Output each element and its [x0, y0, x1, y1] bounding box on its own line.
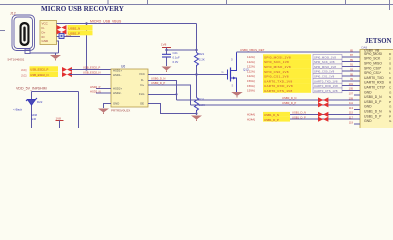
svg-text:UART0_RXD_1V8: UART0_RXD_1V8 [314, 84, 338, 88]
svg-text:SPI0_SCK_1V8: SPI0_SCK_1V8 [314, 60, 335, 64]
svg-text:D: D [231, 58, 233, 62]
svg-text:UART0_TXD_1V8: UART0_TXD_1V8 [314, 79, 338, 83]
svg-text:USB0_D_P: USB0_D_P [282, 101, 296, 105]
no-connect X on USB0_D_N [318, 97, 328, 102]
pin row USB1_D_N [247, 110, 382, 118]
net label USB_ESD2_P [30, 66, 59, 71]
wire USB0_D_N long [177, 99, 361, 101]
ground Q13 [231, 92, 243, 98]
wire U6 D+ out [148, 85, 191, 105]
pin row USB0_D_N [349, 95, 382, 100]
net label USB_ESD2_N [30, 72, 59, 77]
svg-text:122A]: 122A] [247, 74, 255, 78]
wire U6 GND to ground [104, 103, 112, 108]
svg-text:2: 2 [389, 57, 391, 61]
svg-text:SPI0_CS0*: SPI0_CS0* [364, 66, 382, 70]
svg-text:USB0_D_P: USB0_D_P [151, 81, 165, 85]
svg-text:115: 115 [349, 111, 354, 115]
wire HSD2_P stub [96, 88, 111, 90]
svg-text:<-Back: <-Back [13, 108, 23, 112]
svg-text:USB_ESD2_P: USB_ESD2_P [83, 66, 101, 70]
svg-text:1V8: 1V8 [56, 116, 62, 120]
svg-text:HSD2-: HSD2- [113, 91, 121, 95]
svg-text:HSD1+: HSD1+ [113, 68, 122, 72]
svg-text:GND: GND [364, 105, 372, 109]
svg-text:GND: GND [113, 101, 119, 105]
svg-text:122A]: 122A] [247, 60, 255, 64]
wire HSD2_N stub [96, 92, 111, 94]
pin row UART0_TXD [247, 76, 384, 84]
svg-text:H24A]: H24A] [247, 113, 255, 117]
wire ESD2_P to U6 [70, 69, 111, 71]
svg-text:X: X [389, 76, 391, 80]
no-connect X on ESD2_N [62, 72, 72, 77]
svg-text:UART0_CTS_1V8: UART0_CTS_1V8 [314, 89, 338, 93]
svg-text:USB1_D_N: USB1_D_N [264, 113, 279, 117]
svg-text:H24A]: H24A] [247, 117, 255, 121]
svg-text:USB_ESD2_P: USB_ESD2_P [30, 68, 48, 72]
pin row GND 113 [349, 105, 372, 110]
module connector box [360, 50, 393, 129]
wire VBUS vertical [196, 24, 198, 53]
svg-text:D-: D- [141, 78, 144, 82]
net label USB2_P [68, 30, 93, 35]
sheet top border line [0, 0, 393, 31]
svg-text:117: 117 [349, 116, 354, 120]
wire GND of J2 [30, 41, 59, 55]
svg-text:N: N [389, 95, 391, 99]
svg-text:N: N [389, 110, 391, 114]
svg-text:USB0_VBUS_DET: USB0_VBUS_DET [240, 48, 265, 52]
pin row SPI0_CS1* [247, 71, 382, 79]
svg-text:GND: GND [364, 90, 372, 94]
pin row USB0_D_P [349, 100, 382, 105]
svg-text:SPI0_CS1*: SPI0_CS1* [364, 71, 382, 75]
wire U6 D- out [148, 80, 177, 100]
wire D- stub [57, 27, 58, 29]
svg-text:HSD2_P: HSD2_P [90, 85, 101, 89]
svg-text:TP7: TP7 [66, 34, 72, 38]
svg-text:101: 101 [349, 82, 354, 86]
svg-text:54T1646001: 54T1646001 [8, 57, 25, 61]
wire ID to TP7 [57, 36, 81, 38]
ground R22 [191, 116, 202, 122]
power 1V8 upper [161, 42, 171, 50]
svg-text:G: G [222, 70, 224, 74]
svg-text:UART0_RXD_1V8: UART0_RXD_1V8 [264, 84, 293, 88]
pin row GND 119 [349, 119, 372, 124]
ESD IC U6 [111, 65, 148, 108]
svg-text:SPI0_CS1_1V8: SPI0_CS1_1V8 [264, 75, 289, 79]
svg-text:SPI0_MOSI_1V8: SPI0_MOSI_1V8 [314, 55, 336, 59]
wire ESD2_N to U6 [70, 74, 111, 76]
svg-text:159A]: 159A] [247, 89, 255, 93]
svg-text:113: 113 [349, 106, 354, 110]
svg-text:MICRO USB RECOVERY: MICRO USB RECOVERY [41, 5, 124, 13]
svg-text:SPI0_CS0_1V8: SPI0_CS0_1V8 [314, 70, 335, 74]
svg-text:107: 107 [349, 92, 354, 96]
wire Q13 drain [237, 51, 361, 53]
svg-text:USB1_D_P: USB1_D_P [364, 114, 382, 118]
resistor R22 [195, 75, 205, 116]
svg-text:MICRO_USB_VBUS: MICRO_USB_VBUS [90, 20, 122, 24]
ground of J2 [50, 55, 61, 61]
wire D+ stub [57, 31, 58, 33]
wire 1V8 to R21 [167, 49, 197, 51]
svg-text:USB1_D_N: USB1_D_N [364, 110, 382, 114]
pin row SPI0_CS0* [247, 66, 382, 74]
svg-text:P: P [389, 100, 391, 104]
svg-text:SPI0_SCK_1V8: SPI0_SCK_1V8 [264, 60, 289, 64]
svg-text:D+: D+ [141, 83, 145, 87]
svg-text:USB0_D_N: USB0_D_N [282, 96, 296, 100]
pin row GND 107 [349, 90, 372, 95]
power 1V8 lower [56, 116, 64, 128]
svg-text:SPI0_MISO_1V8: SPI0_MISO_1V8 [264, 65, 291, 69]
pin row SPI0_SCK [247, 57, 381, 64]
svg-text:SPI0_MOSI_1V8: SPI0_MOSI_1V8 [264, 55, 291, 59]
no-connect X on D- [57, 25, 67, 30]
svg-text:UART0_TXD: UART0_TXD [364, 76, 384, 80]
diode D22 [26, 98, 37, 105]
wire VCC / gate node [148, 74, 228, 76]
svg-text:122A]: 122A] [247, 65, 255, 69]
svg-text:OE: OE [140, 101, 144, 105]
svg-text:1: 1 [389, 71, 391, 75]
pin row SPI0_MISO [247, 62, 382, 70]
resistor R21 [195, 52, 205, 75]
svg-text:C21: C21 [173, 51, 179, 55]
svg-text:VDD_5V_IN#SHIM: VDD_5V_IN#SHIM [16, 87, 47, 91]
svg-text:FLG: FLG [139, 92, 144, 96]
svg-text:USB2_N: USB2_N [69, 26, 81, 30]
pin row UART0_RXD [247, 81, 385, 89]
svg-text:S: S [389, 62, 391, 66]
svg-text:SPI0_CS0_1V8: SPI0_CS0_1V8 [264, 70, 289, 74]
svg-text:VCC: VCC [139, 72, 145, 76]
wire VBUS drop to ESD row [86, 24, 88, 70]
svg-text:USB0_D_N: USB0_D_N [364, 95, 382, 99]
svg-text:156A]: 156A] [247, 79, 255, 83]
svg-text:UART0_TXD_1V8: UART0_TXD_1V8 [264, 79, 292, 83]
svg-text:D+: D+ [42, 30, 46, 34]
svg-text:VCC: VCC [42, 22, 49, 26]
svg-text:119: 119 [349, 120, 354, 124]
svg-text:UART0_CTS*: UART0_CTS* [364, 86, 386, 90]
svg-text:SPI0_MISO: SPI0_MISO [364, 62, 382, 66]
no-connect X on D+ [57, 30, 67, 35]
net label USB2_N [68, 25, 93, 30]
pin row UART0_CTS* [247, 86, 386, 94]
svg-text:SPI0_SCK: SPI0_SCK [364, 57, 381, 61]
svg-text:HSD2+: HSD2+ [113, 87, 122, 91]
svg-text:PRTR5V0U2X: PRTR5V0U2X [111, 109, 130, 113]
svg-text:SDM: SDM [31, 113, 38, 117]
svg-text:JETSON: JETSON [365, 38, 392, 45]
svg-text:G40: G40 [31, 117, 37, 121]
test point TP7 [59, 34, 71, 39]
wire U6 FLG out [148, 93, 177, 95]
transistor Q13 [228, 52, 237, 92]
wire VDD_5V rail [32, 92, 79, 129]
svg-text:0: 0 [389, 66, 391, 70]
svg-text:R21: R21 [199, 52, 205, 56]
svg-text:109: 109 [349, 96, 354, 100]
svg-text:HSD1-: HSD1- [113, 73, 121, 77]
wire VBUS from J2 VCC [57, 23, 197, 25]
svg-text:6.3V: 6.3V [173, 60, 179, 64]
ground U6 [98, 109, 109, 115]
svg-text:USB_ESD2_N: USB_ESD2_N [30, 73, 48, 77]
junction VBUS [85, 22, 87, 24]
svg-text:P: P [389, 114, 391, 118]
svg-text:105: 105 [349, 87, 354, 91]
svg-text:J1C]: J1C] [21, 74, 27, 78]
svg-text:USB0_D_N: USB0_D_N [151, 77, 165, 81]
svg-text:GND: GND [42, 39, 50, 43]
svg-text:1V8: 1V8 [161, 42, 167, 46]
svg-text:0.1uF: 0.1uF [173, 56, 180, 60]
svg-text:S: S [232, 83, 234, 87]
pin row USB1_D_P [247, 114, 382, 122]
svg-text:122A]: 122A] [247, 69, 255, 73]
connector J2 micro usb shell [12, 15, 35, 54]
wire U6 OE to ground net [148, 103, 197, 113]
svg-text:156A]: 156A] [247, 84, 255, 88]
connector J2 receptacle [20, 22, 30, 46]
svg-text:111: 111 [349, 101, 353, 105]
svg-text:SPI0_MISO_1V8: SPI0_MISO_1V8 [314, 65, 336, 69]
wire USB0_D_P long [191, 104, 361, 106]
no-connect X on ESD2_P [62, 67, 72, 72]
capacitor C21 [162, 50, 180, 66]
svg-text:UART0_CTS_1V8: UART0_CTS_1V8 [264, 89, 292, 93]
ground C21 [162, 67, 172, 73]
svg-text:UART0_RXD: UART0_RXD [364, 81, 385, 85]
svg-text:USB1_D_P: USB1_D_P [264, 118, 279, 122]
module connector second column marks [389, 52, 392, 123]
svg-text:USB0_D_P: USB0_D_P [364, 100, 382, 104]
svg-text:D-: D- [42, 26, 45, 30]
svg-text:2.2K: 2.2K [199, 58, 205, 62]
svg-text:D22: D22 [37, 100, 43, 104]
svg-text:SPI0_CS1_1V8: SPI0_CS1_1V8 [314, 75, 335, 79]
svg-text:SPI0_MOSI: SPI0_MOSI [364, 52, 382, 56]
svg-text:122A]: 122A] [247, 55, 255, 59]
svg-text:HSD2_N: HSD2_N [90, 89, 101, 93]
connector J2 pin box [40, 21, 57, 45]
svg-text:J1C]: J1C] [21, 68, 27, 72]
svg-text:USB_ESD2_N: USB_ESD2_N [83, 71, 101, 75]
svg-text:GND: GND [364, 119, 372, 123]
no-connect X on USB0_D_P [318, 102, 328, 107]
pin row SPI0_MOSI [247, 52, 382, 60]
